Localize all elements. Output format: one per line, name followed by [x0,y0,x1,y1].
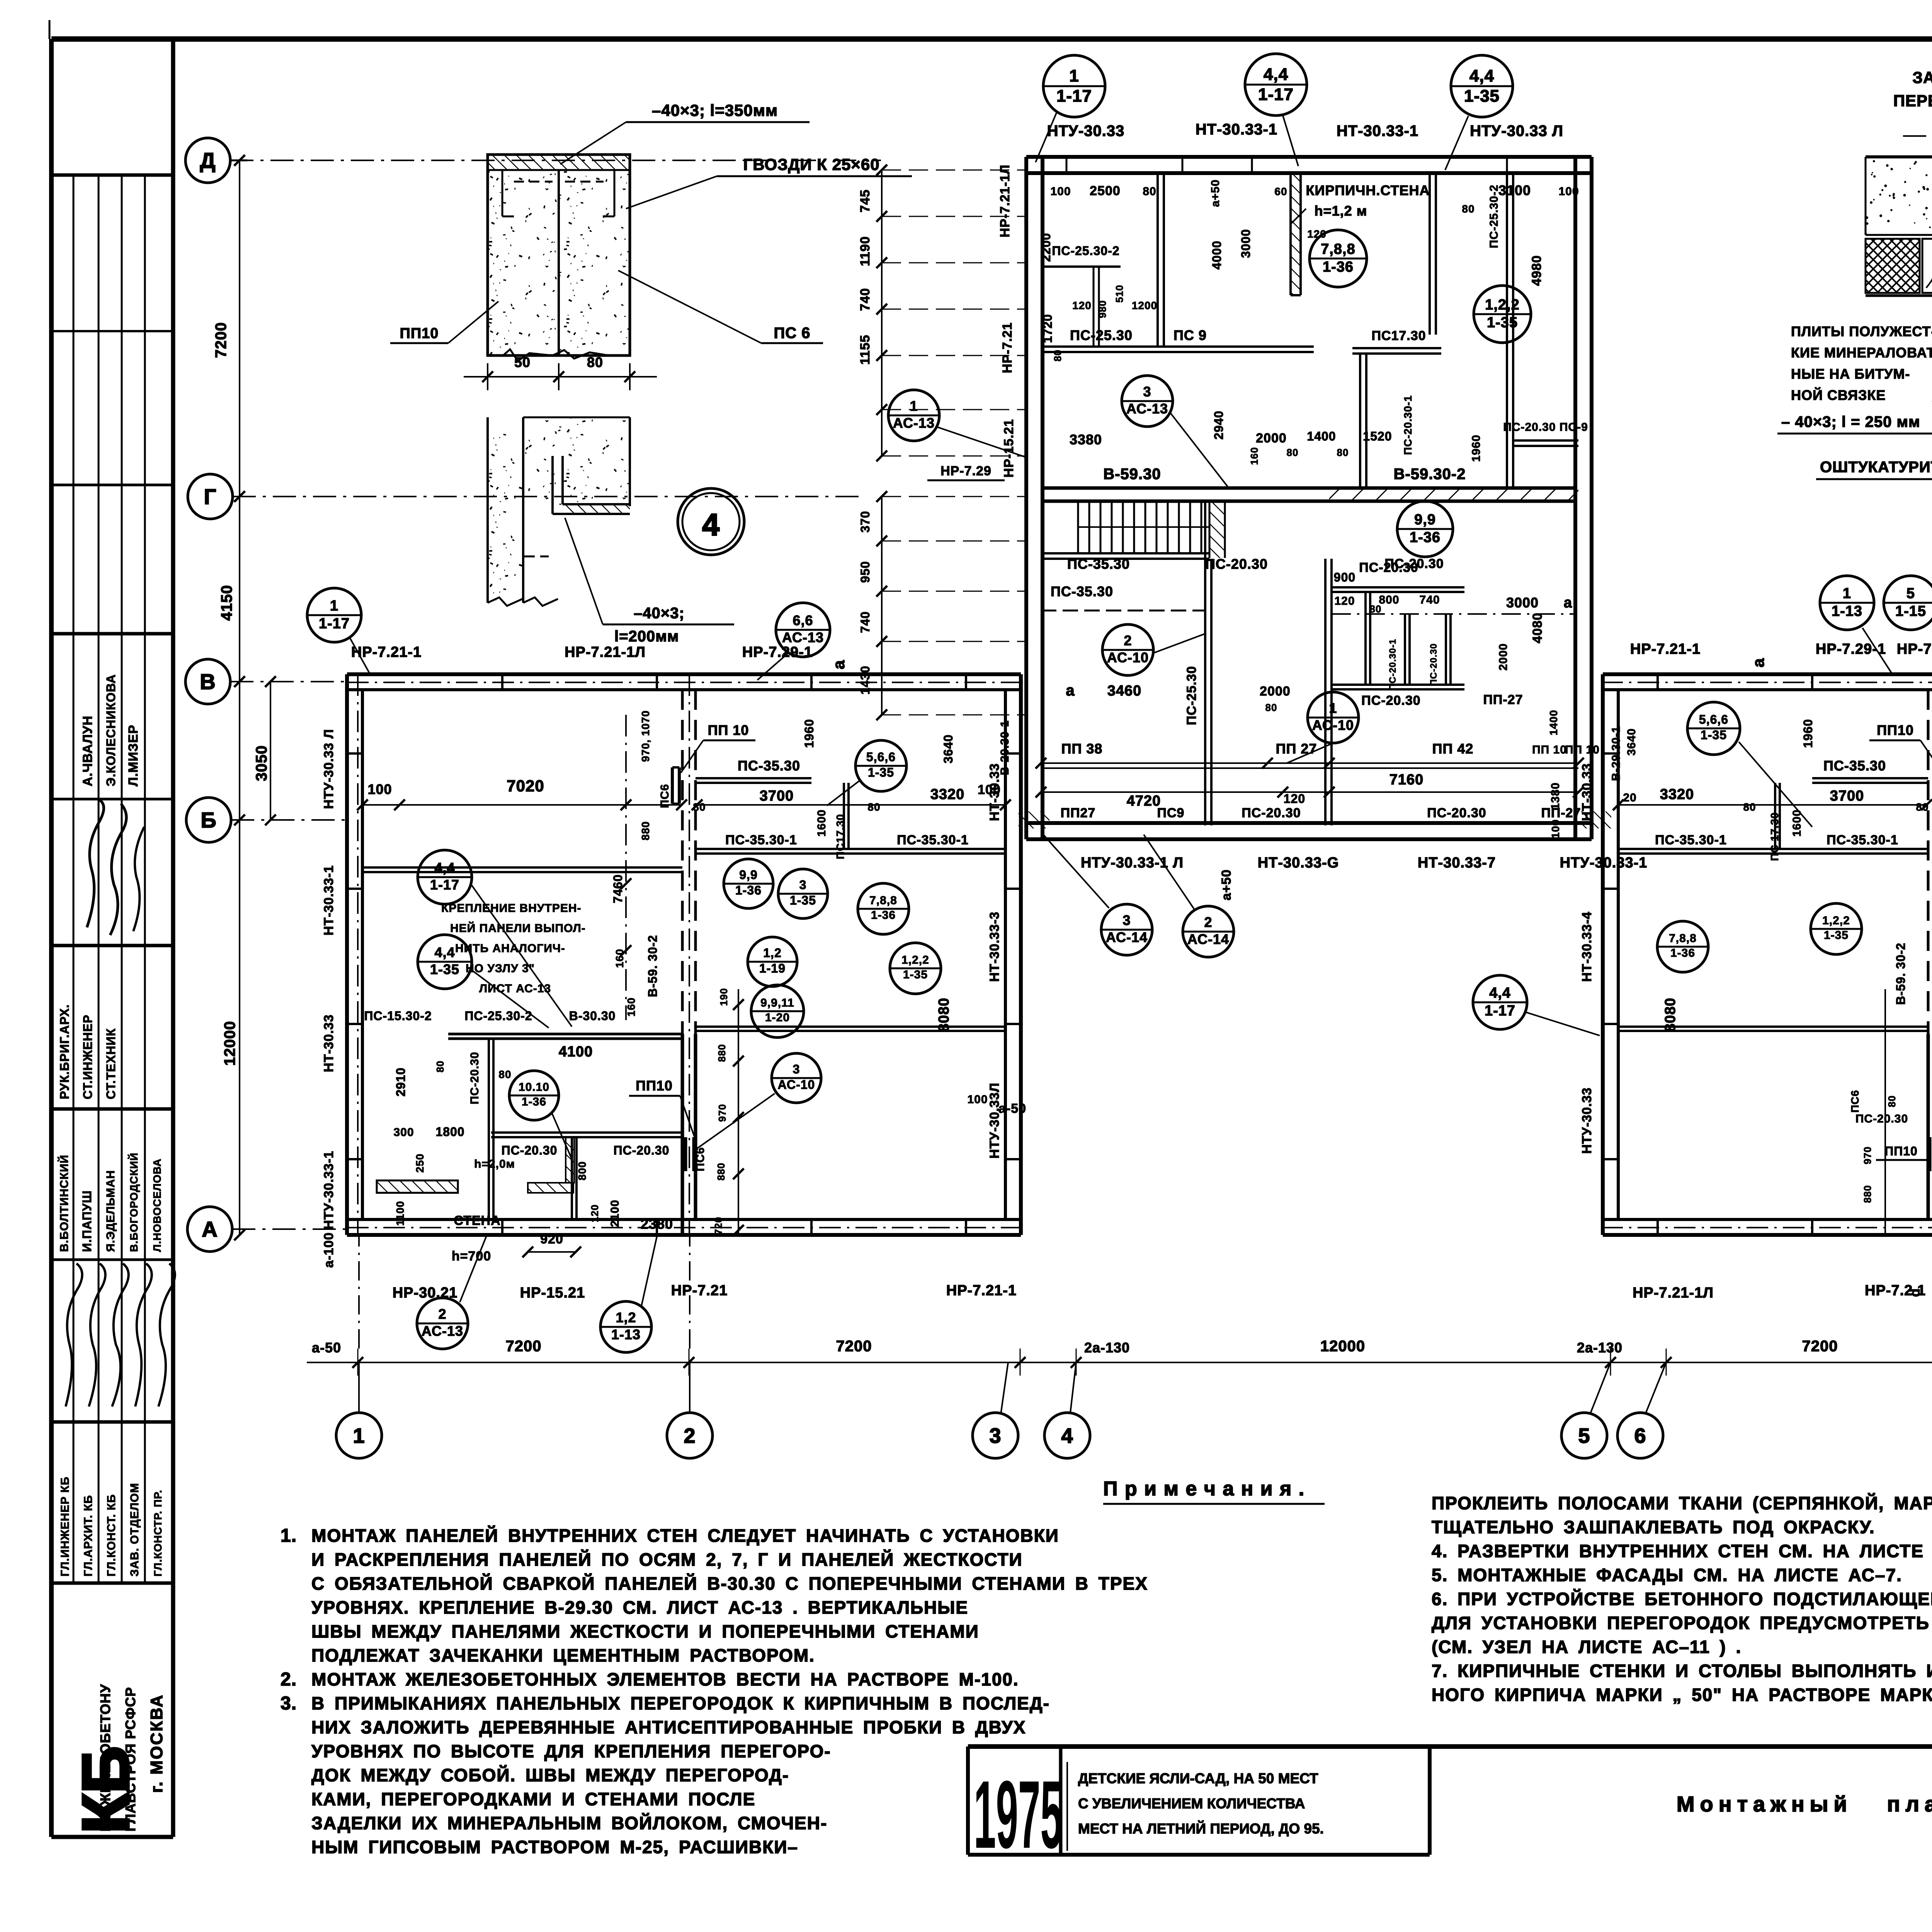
svg-text:а: а [830,660,848,669]
svg-text:h=1,2 м: h=1,2 м [1315,203,1367,219]
svg-text:740: 740 [1419,594,1440,606]
callout 1/1-13 right wing top [1820,576,1874,630]
partition v4 [1359,354,1361,488]
callout 1/1-17 top [1043,55,1105,117]
axis 4 circle [1044,1413,1090,1458]
svg-text:3.: 3. [281,1693,297,1714]
svg-text:3: 3 [989,1424,1001,1447]
callout 2/АС-10 [1102,624,1153,675]
svg-text:– 40×3; l = 250 мм: – 40×3; l = 250 мм [1781,413,1920,430]
svg-text:ШВЫ МЕЖДУ ПАНЕЛЯМИ ЖЕСТКО: ШВЫ МЕЖДУ ПАНЕЛЯМИ ЖЕСТКОСТИ И ПОПЕРЕЧНЫ… [311,1621,979,1641]
svg-text:а: а [1066,682,1075,699]
svg-text:h=2,0м: h=2,0м [474,1158,515,1170]
svg-text:2910: 2910 [394,1067,408,1096]
left dim stack lower [881,497,883,715]
callout 3/АС-14 [1101,904,1152,955]
svg-text:НТУ-30.33 Л: НТУ-30.33 Л [321,729,336,809]
svg-text:4720: 4720 [1127,793,1161,809]
svg-text:НТ-30.33-3: НТ-30.33-3 [987,912,1002,982]
svg-text:800: 800 [576,1161,588,1180]
svg-text:1-17: 1-17 [430,877,459,893]
svg-text:НР-15.21: НР-15.21 [520,1285,585,1301]
svg-text:ПП10: ПП10 [636,1078,673,1094]
svg-text:2: 2 [1124,633,1132,648]
svg-text:2а-130: 2а-130 [1577,1340,1622,1355]
svg-text:370: 370 [858,511,872,532]
svg-text:–40×3;: –40×3; [634,605,685,622]
svg-text:1-35: 1-35 [1487,315,1518,331]
svg-text:1: 1 [353,1424,365,1447]
svg-text:510: 510 [1114,285,1125,303]
svg-text:9,9,11: 9,9,11 [760,997,794,1009]
svg-text:ПС-35.30: ПС-35.30 [738,758,800,774]
svg-text:880: 880 [1862,1185,1873,1203]
svg-text:4. РАЗВЕРТКИ ВНУТРЕННИХ СТЕН: 4. РАЗВЕРТКИ ВНУТРЕННИХ СТЕН СМ. НА ЛИСТ… [1432,1541,1932,1561]
svg-text:4,4: 4,4 [434,860,455,876]
svg-text:ЗАДЕЛКИ ИХ МИНЕРАЛЬНЫМ В: ЗАДЕЛКИ ИХ МИНЕРАЛЬНЫМ ВОЙЛОКОМ, СМОЧЕН- [311,1813,827,1833]
svg-text:1: 1 [910,398,918,414]
svg-text:АС-10: АС-10 [1107,650,1149,665]
svg-text:1800: 1800 [435,1125,464,1139]
svg-text:970, 1070: 970, 1070 [639,710,651,762]
svg-text:4980: 4980 [1529,255,1544,286]
svg-text:ПС 9: ПС 9 [1173,327,1207,343]
svg-text:НТУ-30.33-1: НТУ-30.33-1 [1560,855,1648,871]
svg-text:250: 250 [414,1153,426,1173]
svg-text:4100: 4100 [559,1044,593,1060]
svg-text:ПС-20.30: ПС-20.30 [614,1143,670,1157]
svg-text:НТУ-30.33: НТУ-30.33 [1047,122,1125,139]
svg-text:1-35: 1-35 [430,961,459,977]
svg-text:КИРПИЧН.СТЕНА: КИРПИЧН.СТЕНА [1306,182,1430,198]
svg-text:3: 3 [793,1062,800,1076]
svg-text:50: 50 [514,354,531,370]
svg-text:НТ-30.33-1: НТ-30.33-1 [321,865,336,935]
svg-text:2380: 2380 [641,1216,673,1232]
svg-text:1-13: 1-13 [611,1327,641,1342]
svg-text:5. МОНТАЖНЫЕ ФАСАДЫ СМ. НА: 5. МОНТАЖНЫЕ ФАСАДЫ СМ. НА ЛИСТЕ АС–7. [1432,1565,1902,1585]
wc bottom row [1332,684,1464,686]
callout 7,8,8/1-36 leftwing [858,883,909,934]
callout 6,6/АС-13 left wing [776,603,830,657]
wing right room partition B-30.30 row [347,672,1021,676]
partition h4 [1332,586,1464,588]
svg-text:1,2,2: 1,2,2 [901,954,929,966]
axis 2 circle [667,1413,713,1458]
svg-text:а+50: а+50 [1209,179,1222,207]
svg-text:1520: 1520 [1363,429,1392,443]
svg-text:ПС9: ПС9 [1157,806,1185,820]
svg-text:2500: 2500 [1090,184,1121,198]
svg-text:а-50: а-50 [998,1101,1026,1116]
svg-text:ПП27: ПП27 [1061,806,1096,820]
svg-text:(СМ. УЗЕЛ НА ЛИСТЕ АС–11: (СМ. УЗЕЛ НА ЛИСТЕ АС–11 ) . [1432,1637,1742,1657]
svg-text:А: А [202,1217,218,1242]
svg-text:7200: 7200 [506,1338,542,1355]
svg-text:ДЕТСКИЕ ЯСЛИ-САД, НА 50 МЕСТ: ДЕТСКИЕ ЯСЛИ-САД, НА 50 МЕСТ [1078,1770,1318,1786]
svg-text:100: 100 [1549,819,1561,838]
svg-text:3000: 3000 [1506,595,1539,611]
callout 1/1-17 left wing [307,588,361,642]
svg-text:120: 120 [1072,299,1092,311]
axis 5 circle [1561,1413,1607,1458]
svg-text:ПЕРЕГОРОДКУ К КИРПИЧНОЙ СТЕ: ПЕРЕГОРОДКУ К КИРПИЧНОЙ СТЕНЕ [1893,91,1932,110]
svg-text:1-17: 1-17 [1485,1003,1515,1019]
svg-text:ПП-27: ПП-27 [1541,806,1581,820]
svg-text:а: а [1564,595,1572,611]
svg-text:80: 80 [1462,203,1475,215]
svg-text:НР-7.21-1: НР-7.21-1 [946,1282,1017,1299]
svg-text:ТЩАТЕЛЬНО ЗАШПАКЛЕВАТЬ ПО: ТЩАТЕЛЬНО ЗАШПАКЛЕВАТЬ ПОД ОКРАСКУ. [1432,1517,1875,1537]
detail 4 lower wall section [488,433,523,603]
svg-text:80: 80 [1886,1095,1898,1107]
svg-text:ПП 42: ПП 42 [1432,741,1474,757]
svg-text:3380: 3380 [1070,432,1102,447]
svg-text:ПС-35.30: ПС-35.30 [1067,556,1130,572]
svg-text:а: а [1749,658,1767,667]
svg-text:3700: 3700 [1830,788,1864,804]
svg-text:2: 2 [438,1306,446,1322]
svg-text:ГЛ.АРХИТ. КБ: ГЛ.АРХИТ. КБ [82,1495,95,1577]
svg-text:3000: 3000 [1239,229,1253,258]
svg-text:В-59. 30-2: В-59. 30-2 [646,935,660,997]
svg-text:950: 950 [858,561,872,583]
svg-text:ПС17.30: ПС17.30 [1371,328,1426,343]
svg-text:СТ.ИНЖЕНЕР: СТ.ИНЖЕНЕР [81,1015,95,1099]
svg-text:ПС-20.30: ПС-20.30 [1427,806,1486,820]
callout 9,9,11/1-20 leftwing [751,985,804,1037]
svg-text:1,2: 1,2 [616,1310,636,1325]
svg-text:9,9: 9,9 [1414,512,1436,528]
svg-text:АС-14: АС-14 [1106,929,1148,945]
brick wall h=1.2 [1291,172,1301,295]
svg-text:ПС-35.30: ПС-35.30 [1823,758,1886,774]
svg-text:ПС-20.30: ПС-20.30 [1855,1112,1908,1125]
svg-text:ПП 10: ПП 10 [708,722,749,738]
svg-text:920: 920 [540,1232,563,1247]
svg-text:1975: 1975 [974,1761,1063,1868]
svg-text:РУК.БРИГ.АРХ.: РУК.БРИГ.АРХ. [58,1004,71,1099]
svg-text:ПС-20.30 ПС-9: ПС-20.30 ПС-9 [1503,421,1588,434]
svg-text:10.10: 10.10 [519,1081,549,1094]
svg-text:Б: Б [201,808,216,832]
svg-text:1-17: 1-17 [1258,85,1294,104]
svg-text:160: 160 [1248,447,1260,465]
svg-text:КРЕПЛЕНИЕ ВНУТРЕН-: КРЕПЛЕНИЕ ВНУТРЕН- [441,902,582,915]
svg-text:АС-14: АС-14 [1187,931,1229,947]
svg-text:7020: 7020 [507,777,544,795]
svg-text:1-17: 1-17 [319,616,350,632]
svg-text:НТУ-30.33Л: НТУ-30.33Л [987,1083,1002,1159]
svg-text:С УВЕЛИЧЕНИЕМ КОЛИЧЕСТВА: С УВЕЛИЧЕНИЕМ КОЛИЧЕСТВА [1078,1796,1305,1811]
svg-text:НИТЬ АНАЛОГИЧ-: НИТЬ АНАЛОГИЧ- [455,942,565,955]
svg-text:80: 80 [434,1061,446,1073]
callout 4,4/1-35 top [1451,55,1513,117]
partition ПС-20.30 v1 [1156,172,1159,348]
detail 1 lower ledge lines [1866,294,1932,297]
callout 1,2,2/1-35 [1474,286,1531,343]
svg-text:КИЕ МИНЕРАЛОВАТ-: КИЕ МИНЕРАЛОВАТ- [1791,345,1932,361]
partition h1 [1041,345,1314,348]
callout 5,6,6/1-35 right wing [1687,702,1740,755]
left vertical dimension line [239,160,240,1235]
svg-text:ПС-20.30: ПС-20.30 [502,1143,558,1157]
svg-text:1,2: 1,2 [763,946,781,960]
paper edge stub [49,20,51,39]
svg-text:Г: Г [204,485,217,509]
svg-text:2000: 2000 [1497,643,1510,671]
svg-text:ПП 10: ПП 10 [1532,743,1567,756]
svg-text:1-36: 1-36 [1323,259,1354,275]
svg-text:3640: 3640 [1625,728,1638,756]
svg-text:ПП-27: ПП-27 [1483,692,1523,707]
svg-text:3320: 3320 [1660,786,1694,803]
svg-text:ДОК МЕЖДУ СОБОЙ. ШВЫ: ДОК МЕЖДУ СОБОЙ. ШВЫ МЕЖДУ ПЕРЕГОРОД- [311,1765,789,1785]
svg-text:НР-7.21: НР-7.21 [671,1282,728,1299]
svg-text:1155: 1155 [858,335,872,365]
svg-text:а-50: а-50 [312,1340,341,1355]
callout 5/1-15 right wing top [1884,576,1932,630]
svg-text:80: 80 [1743,801,1756,813]
svg-text:2а-130: 2а-130 [1084,1340,1130,1355]
svg-text:В-59.30-2: В-59.30-2 [1394,466,1466,483]
svg-text:НТ-30.33: НТ-30.33 [987,763,1002,821]
svg-text:3460: 3460 [1107,683,1142,699]
svg-text:ПС-20.30: ПС-20.30 [1429,643,1439,686]
axis Д circle [185,138,230,183]
callout 3/АС-10 leftwing [772,1053,821,1103]
svg-text:1400: 1400 [1307,429,1336,443]
axis Б circle [186,798,231,842]
svg-text:ПС-35.30-1: ПС-35.30-1 [1655,833,1727,847]
svg-text:60: 60 [1274,185,1287,197]
svg-text:1: 1 [1329,700,1337,716]
central block corner hatch right [1580,811,1611,828]
svg-text:2940: 2940 [1212,410,1226,439]
svg-text:А.ЧВАЛУН: А.ЧВАЛУН [80,716,95,786]
svg-text:2: 2 [684,1424,696,1447]
svg-text:80: 80 [1337,447,1349,458]
svg-text:ПП10: ПП10 [1877,722,1914,738]
svg-text:1,2,2: 1,2,2 [1485,297,1520,313]
svg-text:880: 880 [715,1163,727,1180]
bearing wall B-59.30 [1043,486,1575,490]
svg-text:ПС-20.30-1: ПС-20.30-1 [1388,639,1398,690]
svg-text:1-36: 1-36 [1670,947,1695,959]
drawing frame border [51,36,1932,42]
axis 1 circle [336,1413,382,1458]
svg-text:970: 970 [716,1104,728,1122]
partition v6 lower [1204,501,1206,825]
svg-text:ПС-35.30-1: ПС-35.30-1 [897,833,969,847]
svg-text:Монтажный план. Узлы.: Монтажный план. Узлы. [1677,1792,1932,1816]
stair bottom wall [1041,552,1209,554]
svg-text:НР-7.21-1Л: НР-7.21-1Л [998,165,1012,238]
callout 4,4/1-17 inwing [418,850,472,904]
svg-text:20: 20 [1623,791,1636,804]
svg-text:1-35: 1-35 [790,893,816,907]
svg-text:НЕЙ ПАНЕЛИ ВЫПОЛ-: НЕЙ ПАНЕЛИ ВЫПОЛ- [450,922,586,935]
svg-text:80: 80 [1287,447,1299,458]
axis Г circle [188,474,233,519]
svg-text:1-35: 1-35 [1464,87,1500,105]
svg-text:НОГО КИРПИЧА МАРКИ „ 50": НОГО КИРПИЧА МАРКИ „ 50" НА РАСТВОРЕ МАР… [1432,1685,1932,1705]
title block frame [968,1744,1932,1749]
svg-text:80: 80 [867,801,880,813]
svg-text:80: 80 [498,1068,511,1080]
detail 4 identification circle [678,488,744,555]
svg-text:НР-7.21-1: НР-7.21-1 [1897,641,1932,657]
svg-text:4,4: 4,4 [1489,985,1511,1001]
svg-text:160: 160 [614,949,626,968]
svg-text:1-19: 1-19 [759,961,786,975]
svg-text:ПС-20.30: ПС-20.30 [1361,693,1420,708]
svg-text:740: 740 [858,611,872,633]
svg-text:В-59.30: В-59.30 [1103,466,1161,483]
detail 4 upper wall section [488,170,630,355]
svg-text:1-15: 1-15 [1895,603,1926,619]
svg-text:ПС6: ПС6 [658,784,671,808]
svg-text:190: 190 [718,988,730,1006]
partition h3 lower-left room [1041,610,1205,612]
svg-text:НТ-30.33-1: НТ-30.33-1 [1196,121,1277,138]
svg-text:2100: 2100 [609,1200,621,1227]
svg-text:7200: 7200 [836,1338,872,1355]
svg-text:12000: 12000 [1320,1338,1365,1355]
svg-text:ПС17.30: ПС17.30 [834,814,846,859]
svg-text:НТУ-30.33: НТУ-30.33 [1580,1087,1594,1154]
svg-text:а-100: а-100 [321,1232,336,1268]
svg-text:880: 880 [716,1044,728,1062]
svg-text:НЫЕ НА БИТУМ-: НЫЕ НА БИТУМ- [1791,366,1910,382]
callout 7,8,8/1-36 rw [1657,921,1708,972]
svg-text:100: 100 [967,1093,988,1106]
svg-text:ЛИСТ АС-13: ЛИСТ АС-13 [479,982,551,995]
svg-text:1-36: 1-36 [1410,529,1440,546]
svg-text:3640: 3640 [941,734,955,763]
svg-text:НТ-30.33-4: НТ-30.33-4 [1580,912,1594,982]
svg-text:2000: 2000 [1256,431,1287,446]
callout 4,4/1-17 top [1245,54,1307,116]
svg-text:4150: 4150 [218,585,235,621]
svg-text:П р и м е ч а н и я .: П р и м е ч а н и я . [1103,1478,1305,1500]
svg-text:1-20: 1-20 [765,1011,790,1024]
svg-text:ПП10: ПП10 [400,325,439,342]
svg-text:Э.КОЛЕСНИКОВА: Э.КОЛЕСНИКОВА [104,674,118,786]
svg-text:8080: 8080 [1662,998,1679,1032]
svg-text:3: 3 [1143,384,1151,400]
central block corner hatch left [1019,811,1049,828]
svg-text:ПС-20.30: ПС-20.30 [1384,556,1444,571]
callout 4,4/1-17 courtyard [1473,975,1527,1029]
svg-text:МОНТАЖ ПАНЕЛЕЙ ВНУТРЕННИХ С: МОНТАЖ ПАНЕЛЕЙ ВНУТРЕННИХ СТЕН СЛЕДУЕТ Н… [311,1526,1059,1546]
svg-text:900: 900 [1334,570,1355,584]
svg-text:4,4: 4,4 [1469,66,1494,85]
svg-text:НТ-30.33: НТ-30.33 [1580,763,1594,821]
svg-text:г. МОСКВА: г. МОСКВА [147,1694,166,1793]
svg-text:ПРОКЛЕИТЬ ПОЛОСАМИ ТКАНИ (СЕРП: ПРОКЛЕИТЬ ПОЛОСАМИ ТКАНИ (СЕРПЯНКОЙ, МАР… [1432,1493,1932,1513]
svg-text:3050: 3050 [253,745,270,781]
svg-text:ГЛАВСТРОЯ РСФСР: ГЛАВСТРОЯ РСФСР [122,1687,138,1832]
svg-text:6: 6 [1634,1424,1646,1447]
partition v5 [1506,172,1508,488]
svg-text:1960: 1960 [802,719,816,748]
svg-text:Я.ЭДЕЛЬМАН: Я.ЭДЕЛЬМАН [104,1170,117,1252]
svg-text:1-36: 1-36 [871,909,896,922]
svg-text:В-29.30-1: В-29.30-1 [1610,726,1622,781]
svg-text:120: 120 [589,1204,600,1222]
svg-text:Л.МИЗЕР: Л.МИЗЕР [126,724,141,786]
axis 6 circle [1617,1413,1663,1458]
svg-text:80: 80 [1916,801,1929,813]
svg-text:4,4: 4,4 [434,944,455,960]
svg-text:ПС-20.30: ПС-20.30 [1205,556,1268,572]
svg-text:1: 1 [330,598,338,614]
svg-text:ПС-20.30: ПС-20.30 [468,1052,481,1104]
svg-text:ПС 6: ПС 6 [774,325,811,342]
svg-text:В-59. 30-2: В-59. 30-2 [1894,942,1908,1005]
bottom dimension line row [307,1362,1932,1363]
svg-text:160: 160 [625,997,637,1017]
svg-text:НР-7.21-1: НР-7.21-1 [1630,641,1701,657]
svg-text:2200: 2200 [1039,233,1053,262]
svg-text:1-35: 1-35 [868,765,894,779]
svg-text:ЗАВ. ОТДЕЛОМ: ЗАВ. ОТДЕЛОМ [128,1483,141,1577]
svg-text:С ОБЯЗАТЕЛЬНОЙ СВАРКОЙ ПАНЕ: С ОБЯЗАТЕЛЬНОЙ СВАРКОЙ ПАНЕЛЕЙ В-30.30 С… [311,1573,1148,1594]
svg-text:7460: 7460 [611,874,625,903]
svg-text:НТ-30.33-7: НТ-30.33-7 [1418,855,1496,871]
stamp signatures group B [66,1264,82,1406]
svg-text:ПП10: ПП10 [1884,1144,1918,1158]
svg-text:ПС-25.30-2: ПС-25.30-2 [1488,185,1500,248]
svg-text:ГВОЗДИ К 25×60: ГВОЗДИ К 25×60 [743,155,879,173]
svg-text:а+50: а+50 [1219,869,1234,901]
left dim stack upper [881,170,883,456]
svg-text:НТ-30.33-1: НТ-30.33-1 [1337,122,1418,139]
svg-text:745: 745 [858,189,872,213]
stamp signatures group A [87,800,104,927]
callout 1,2,2/1-35 leftwing [890,943,941,994]
svg-text:В.БОЛТИНСКИЙ: В.БОЛТИНСКИЙ [58,1155,71,1252]
svg-text:7200: 7200 [213,322,230,358]
axis Г dash-dot line [233,496,866,497]
svg-text:ПС-25.30: ПС-25.30 [1070,327,1133,343]
callout 1,2/1-19 leftwing [748,937,797,986]
svg-text:1720: 1720 [1041,314,1054,343]
svg-text:–40×3; l=350мм: –40×3; l=350мм [652,101,778,119]
svg-text:ПП 27: ПП 27 [1276,741,1317,757]
svg-text:5: 5 [1906,585,1915,602]
svg-text:7,8,8: 7,8,8 [869,894,897,907]
callout 1,2/1-13 bottom left wing [600,1301,651,1352]
callout 1,2,2/1-35 rw [1811,903,1862,954]
svg-text:ПС 17.30: ПС 17.30 [1769,812,1781,861]
svg-text:1960: 1960 [1801,719,1815,748]
svg-text:12000: 12000 [221,1021,238,1066]
svg-text:100: 100 [367,781,392,797]
svg-text:И.ПАПУШ: И.ПАПУШ [80,1190,94,1252]
svg-text:НЫМ ГИПСОВЫМ РАСТВОРОМ М: НЫМ ГИПСОВЫМ РАСТВОРОМ М-25, РАСШИВКИ– [311,1837,798,1857]
svg-text:ПОДЛЕЖАТ ЗАЧЕКАНКИ ЦЕМЕНТН: ПОДЛЕЖАТ ЗАЧЕКАНКИ ЦЕМЕНТНЫМ РАСТВОРОМ. [311,1645,815,1665]
svg-text:НР-7.21-1Л: НР-7.21-1Л [1633,1285,1714,1301]
svg-text:Д: Д [200,148,216,173]
partition v7 lower [1324,559,1327,825]
detail 1 left wood block [1922,239,1932,293]
callout 4,4/1-35 inwing [418,935,472,989]
svg-text:1: 1 [1069,66,1079,85]
svg-text:1400: 1400 [1548,710,1560,735]
svg-text:1.: 1. [281,1526,297,1546]
